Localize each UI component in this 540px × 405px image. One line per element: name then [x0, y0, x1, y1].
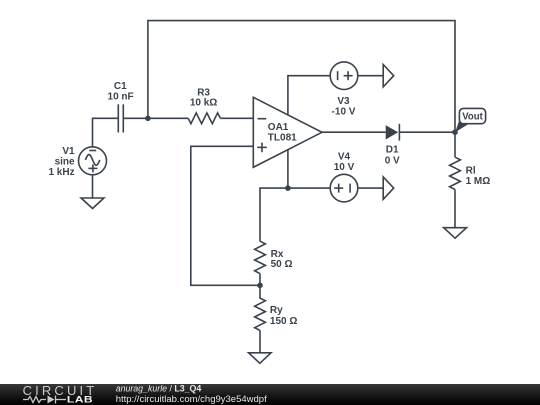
wire: V3 to right ground: [358, 75, 383, 77]
wire: op-amp bottom supply pin down to V4 rail: [287, 150, 289, 188]
label Ry value: [270, 305, 297, 327]
node: Rx/Ry junction dot: [257, 283, 263, 289]
node: bottom supply junction dot: [285, 185, 291, 191]
ground below Rl: [444, 228, 467, 239]
svg-text:10 nF: 10 nF: [108, 91, 134, 102]
label Rx value: [271, 249, 293, 270]
label R3 value: [190, 88, 217, 109]
label OA1 TL081: [268, 122, 297, 144]
resistor Rl: [450, 157, 461, 189]
wire: Ry to ground: [259, 330, 261, 352]
label D1 value: [385, 145, 400, 167]
svg-text:0 V: 0 V: [385, 155, 400, 166]
logo resistor-diode glyph: [23, 396, 66, 404]
label C1 value: [108, 81, 134, 103]
wire: R3 to op-amp inverting input: [220, 117, 253, 119]
svg-text:1 kHz: 1 kHz: [48, 167, 74, 178]
ground below V1: [81, 198, 104, 209]
svg-text:Ry: Ry: [270, 305, 283, 316]
label Rl value: [466, 166, 491, 187]
wire: op-amp output to diode: [322, 131, 386, 133]
svg-text:V3: V3: [337, 96, 350, 107]
label V3 value: [332, 96, 356, 118]
ground (rotated right) at V3: [383, 65, 394, 87]
wire: op-amp non-inverting input to Rx/Ry junction: [191, 146, 260, 285]
op-amp OA1 TL081: [253, 97, 322, 167]
svg-text:OA1: OA1: [268, 122, 289, 133]
wire: feedback top rail from input node up, across, down to output node: [148, 21, 455, 133]
resistor Rx: [255, 241, 266, 273]
node: Vout node dot: [452, 129, 458, 135]
wire: V4 to right ground: [358, 187, 383, 189]
node label Vout (callout): [455, 108, 485, 132]
wire: Rl to ground: [454, 190, 456, 228]
ground below Ry: [249, 353, 271, 364]
resistor R3: [188, 113, 220, 124]
svg-text:150 Ω: 150 Ω: [270, 316, 297, 327]
svg-text:V4: V4: [338, 152, 351, 163]
capacitor C1: [118, 104, 123, 132]
label V4 value: [334, 152, 355, 174]
voltage source V4: [330, 174, 358, 202]
svg-text:50 Ω: 50 Ω: [271, 259, 293, 270]
svg-text:1 MΩ: 1 MΩ: [466, 176, 491, 187]
label V1 sine 1 kHz: [48, 146, 75, 178]
wire: V1 to ground: [92, 175, 94, 198]
wire: Vout node down to Rl: [454, 132, 456, 157]
svg-text:-10 V: -10 V: [332, 107, 356, 118]
svg-text:TL081: TL081: [268, 133, 297, 144]
voltage source V1 (sine): [79, 147, 107, 175]
wire: C1 to R3: [123, 117, 188, 119]
svg-text:C1: C1: [114, 81, 127, 92]
svg-text:anurag_kurle / L3_Q4: anurag_kurle / L3_Q4: [116, 383, 202, 393]
svg-text:V1: V1: [62, 146, 75, 157]
wire: junction right to V4: [288, 187, 330, 189]
voltage source V3: [330, 62, 358, 90]
svg-text:sine: sine: [55, 156, 75, 167]
wire: op-amp top supply pin to V3: [288, 76, 330, 115]
wire: Rx to junction: [259, 274, 261, 286]
footer bar: [0, 384, 540, 405]
diode D1: [386, 124, 400, 141]
wire: V1 top stub to main input wire: [93, 118, 119, 147]
svg-text:10 kΩ: 10 kΩ: [190, 98, 217, 109]
node: input summing node dot: [145, 116, 151, 122]
resistor Ry: [255, 285, 266, 330]
svg-text:D1: D1: [386, 145, 399, 156]
svg-text:http://circuitlab.com/chg9y3e5: http://circuitlab.com/chg9y3e54wdpf: [116, 394, 267, 405]
svg-text:Vout: Vout: [462, 112, 483, 123]
wire: junction left and down to Rx: [260, 188, 288, 241]
svg-text:LAB: LAB: [67, 395, 93, 405]
wire: diode to output node: [399, 131, 455, 133]
svg-text:10 V: 10 V: [334, 162, 355, 173]
ground (rotated right) at V4: [383, 177, 394, 199]
